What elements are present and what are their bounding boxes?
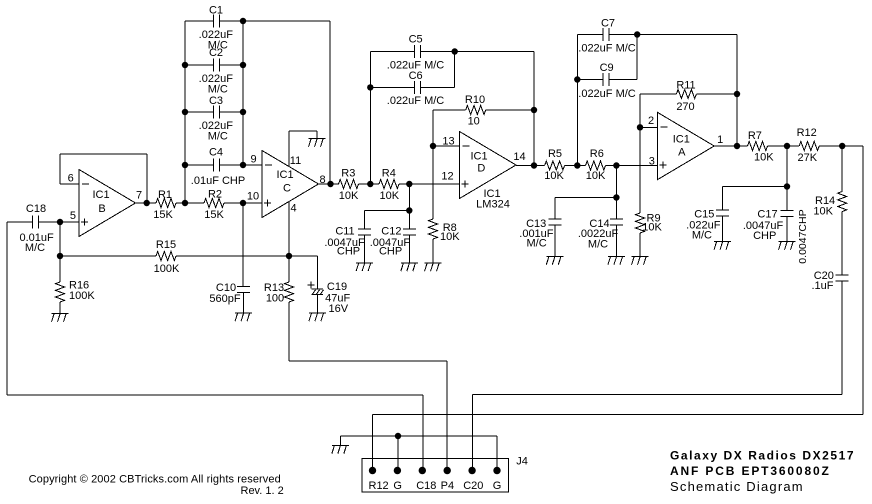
svg-text:C4: C4 — [209, 147, 223, 159]
svg-text:G: G — [493, 480, 502, 492]
svg-text:11: 11 — [290, 155, 301, 167]
svg-text:R7: R7 — [748, 130, 762, 142]
svg-text:13: 13 — [442, 136, 454, 148]
svg-text:9: 9 — [251, 154, 257, 166]
svg-text:M/C: M/C — [527, 238, 547, 250]
svg-text:10K: 10K — [380, 190, 400, 202]
svg-text:C3: C3 — [209, 95, 223, 107]
svg-text:M/C: M/C — [25, 242, 45, 254]
svg-text:D: D — [477, 163, 485, 175]
svg-text:M/C: M/C — [692, 230, 712, 242]
svg-text:R6: R6 — [590, 148, 604, 160]
svg-text:10K: 10K — [754, 152, 774, 164]
svg-text:G: G — [393, 480, 402, 492]
svg-text:15K: 15K — [153, 209, 173, 221]
svg-text:100K: 100K — [154, 263, 180, 275]
svg-text:C2: C2 — [209, 47, 223, 59]
svg-text:C1: C1 — [209, 4, 223, 16]
svg-text:C19: C19 — [327, 281, 347, 293]
svg-text:100K: 100K — [69, 290, 95, 302]
svg-text:R12: R12 — [369, 480, 389, 492]
svg-text:100: 100 — [266, 293, 284, 305]
svg-text:3: 3 — [649, 156, 655, 168]
svg-text:C11: C11 — [335, 225, 354, 237]
svg-text:C12: C12 — [381, 225, 401, 237]
svg-text:0.0047CHP: 0.0047CHP — [797, 209, 809, 263]
svg-text:1: 1 — [717, 134, 723, 146]
svg-text:270: 270 — [676, 101, 694, 113]
svg-text:10K: 10K — [440, 231, 460, 243]
svg-text:Copyright © 2002 CBTricks.com: Copyright © 2002 CBTricks.com All rights… — [29, 473, 281, 485]
svg-text:C9: C9 — [600, 62, 614, 74]
svg-text:7: 7 — [136, 190, 142, 202]
svg-text:10K: 10K — [642, 222, 662, 234]
svg-text:12: 12 — [441, 171, 453, 183]
svg-text:10K: 10K — [586, 170, 606, 182]
svg-text:IC1: IC1 — [470, 151, 487, 163]
svg-text:.1uF: .1uF — [811, 280, 833, 292]
svg-text:10: 10 — [468, 116, 480, 128]
svg-text:C7: C7 — [601, 18, 615, 30]
svg-text:C5: C5 — [409, 34, 423, 46]
svg-text:CHP: CHP — [379, 246, 402, 258]
svg-text:R5: R5 — [548, 148, 562, 160]
svg-text:15K: 15K — [204, 209, 224, 221]
svg-text:R3: R3 — [341, 167, 355, 179]
svg-text:10K: 10K — [813, 206, 833, 218]
svg-text:4: 4 — [290, 203, 296, 215]
svg-text:R1: R1 — [158, 189, 172, 201]
svg-text:CHP: CHP — [753, 230, 776, 242]
svg-text:C18: C18 — [26, 203, 46, 215]
svg-text:2: 2 — [648, 115, 654, 127]
svg-text:27K: 27K — [798, 152, 818, 164]
svg-text:ANF PCB EPT360080Z: ANF PCB EPT360080Z — [670, 464, 831, 478]
svg-text:LM324: LM324 — [476, 199, 510, 211]
svg-text:A: A — [678, 146, 686, 158]
svg-text:560pF: 560pF — [209, 293, 240, 305]
svg-text:C20: C20 — [463, 480, 483, 492]
svg-text:.01uF CHP: .01uF CHP — [191, 175, 245, 187]
svg-text:P4: P4 — [441, 480, 454, 492]
svg-text:IC1: IC1 — [92, 189, 109, 201]
svg-text:.022uF M/C: .022uF M/C — [578, 42, 636, 54]
svg-text:IC1: IC1 — [276, 169, 293, 181]
svg-text:R12: R12 — [797, 127, 817, 139]
svg-text:R10: R10 — [465, 94, 485, 106]
svg-text:8: 8 — [319, 174, 325, 186]
svg-text:6: 6 — [68, 173, 74, 185]
svg-text:.022uF M/C: .022uF M/C — [387, 95, 445, 107]
svg-text:14: 14 — [513, 151, 525, 163]
svg-text:M/C: M/C — [588, 239, 608, 251]
svg-text:C17: C17 — [757, 209, 777, 221]
svg-text:16V: 16V — [329, 303, 349, 315]
svg-text:Rev. 1. 2: Rev. 1. 2 — [241, 485, 284, 497]
svg-text:C: C — [283, 183, 291, 195]
svg-text:C18: C18 — [416, 480, 436, 492]
svg-text:10K: 10K — [544, 170, 564, 182]
svg-text:R15: R15 — [156, 239, 176, 251]
svg-text:C6: C6 — [409, 70, 423, 82]
svg-text:M/C: M/C — [208, 83, 228, 95]
svg-text:10K: 10K — [339, 190, 359, 202]
svg-text:J4: J4 — [516, 456, 528, 468]
svg-text:CHP: CHP — [337, 246, 360, 258]
svg-text:Galaxy DX Radios DX2517: Galaxy DX Radios DX2517 — [670, 449, 855, 463]
svg-text:IC1: IC1 — [673, 134, 690, 146]
svg-text:10: 10 — [247, 191, 259, 203]
svg-text:.022uF M/C: .022uF M/C — [578, 88, 636, 100]
svg-text:B: B — [98, 203, 105, 215]
svg-text:Schematic Diagram: Schematic Diagram — [670, 479, 804, 494]
svg-text:5: 5 — [70, 210, 76, 222]
svg-text:M/C: M/C — [208, 130, 228, 142]
svg-text:R4: R4 — [382, 167, 396, 179]
svg-text:R11: R11 — [676, 80, 695, 92]
svg-text:R2: R2 — [208, 188, 222, 200]
